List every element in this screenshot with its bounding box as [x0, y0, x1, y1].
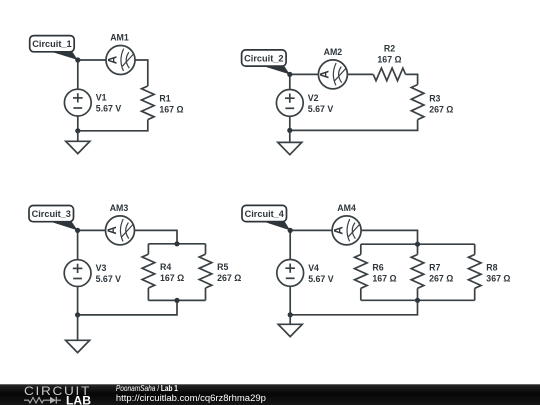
- wire ammeter AM2 to R2: [347, 73, 373, 75]
- ammeter AM1: [106, 46, 135, 75]
- ground circuit 1: [66, 131, 90, 154]
- node junction circuit 1 top: [75, 57, 80, 62]
- wire AM3 to parallel group: [135, 230, 178, 243]
- node junction parallel top circuit 3: [174, 241, 179, 246]
- svg-text:R8: R8: [486, 262, 497, 272]
- svg-text:V1: V1: [96, 93, 107, 103]
- svg-text:A: A: [320, 70, 332, 78]
- node junction circuit 4 bottom: [288, 312, 293, 317]
- node junction circuit 2 bottom: [287, 128, 292, 133]
- wire parallel bottom rail circuit 3: [148, 299, 205, 301]
- node junction parallel top circuit 4: [415, 242, 420, 247]
- ground circuit 4: [278, 315, 302, 337]
- voltage source V4: [277, 260, 304, 287]
- svg-text:LAB: LAB: [66, 395, 91, 405]
- svg-text:AM3: AM3: [110, 203, 129, 213]
- wire top rail circuit 2: [290, 73, 319, 75]
- wire R4 leads: [147, 244, 149, 254]
- wire V3 bottom: [77, 287, 79, 315]
- svg-text:167 Ω: 167 Ω: [377, 55, 401, 65]
- svg-text:AM2: AM2: [324, 47, 343, 57]
- svg-text:5.67 V: 5.67 V: [308, 274, 334, 284]
- wire R5 leads: [205, 244, 207, 254]
- footer bar: [0, 384, 540, 405]
- wire top rail circuit 1: [78, 59, 106, 61]
- wire bottom rail circuit 1: [78, 120, 148, 131]
- svg-text:267 Ω: 267 Ω: [429, 273, 453, 283]
- wire R2 to R3: [406, 74, 418, 84]
- svg-text:Circuit_4: Circuit_4: [245, 209, 285, 219]
- CircuitLab logo waveform icon: [24, 397, 50, 403]
- resistor R4: [142, 254, 155, 288]
- wire parallel top rail circuit 4: [361, 243, 475, 245]
- svg-text:Circuit_1: Circuit_1: [32, 39, 71, 49]
- ground circuit 2: [278, 130, 302, 154]
- voltage source V3: [64, 260, 91, 287]
- wire R7 leads: [417, 244, 419, 254]
- svg-text:R2: R2: [384, 44, 395, 54]
- voltage source V1: [64, 89, 91, 116]
- node junction parallel bottom circuit 3: [174, 298, 179, 303]
- wire V4 top: [289, 230, 291, 259]
- wire V3 top: [77, 230, 79, 259]
- node label Circuit_4: [242, 205, 290, 230]
- wire V1 bottom: [77, 116, 79, 131]
- resistor R2: [373, 68, 405, 81]
- svg-text:R6: R6: [372, 262, 383, 272]
- wire ammeter to resistor circuit 1: [135, 60, 148, 86]
- svg-text:V3: V3: [96, 263, 107, 273]
- voltage source V2: [276, 90, 303, 117]
- ammeter AM4: [332, 216, 361, 245]
- svg-text:PoonamSaha / Lab 1: PoonamSaha / Lab 1: [116, 384, 179, 393]
- node junction circuit 2 top: [287, 72, 292, 77]
- resistor R3: [411, 85, 424, 120]
- svg-text:167 Ω: 167 Ω: [159, 105, 183, 115]
- ammeter AM2: [318, 60, 347, 89]
- svg-text:R3: R3: [429, 94, 440, 104]
- wire AM4 to parallel group: [361, 230, 417, 244]
- svg-text:5.67 V: 5.67 V: [96, 104, 122, 114]
- wire top rail circuit 4: [290, 229, 332, 231]
- node junction circuit 3 bottom: [75, 312, 80, 317]
- node label Circuit_3: [29, 206, 78, 231]
- svg-text:5.67 V: 5.67 V: [308, 104, 334, 114]
- svg-text:AM1: AM1: [110, 33, 129, 43]
- node junction circuit 3 top: [75, 228, 80, 233]
- wire bottom rail circuit 2: [290, 120, 418, 131]
- node label Circuit_2: [242, 50, 290, 75]
- resistor R7: [411, 255, 424, 289]
- wire top rail circuit 3: [78, 229, 106, 231]
- resistor R5: [199, 254, 212, 288]
- ground circuit 3: [66, 315, 90, 353]
- resistor R8: [468, 255, 481, 289]
- svg-text:Circuit_2: Circuit_2: [244, 54, 283, 64]
- svg-text:A: A: [107, 56, 119, 64]
- svg-text:R4: R4: [160, 262, 171, 272]
- svg-text:Circuit_3: Circuit_3: [32, 209, 71, 219]
- svg-text:167 Ω: 167 Ω: [160, 273, 184, 283]
- node label Circuit_1: [30, 36, 78, 60]
- resistor R1: [142, 86, 155, 120]
- svg-text:V2: V2: [308, 93, 319, 103]
- node junction circuit 1 bottom: [75, 128, 80, 133]
- svg-text:367 Ω: 367 Ω: [486, 273, 510, 283]
- svg-text:R5: R5: [217, 262, 228, 272]
- svg-text:R7: R7: [429, 262, 440, 272]
- svg-text:AM4: AM4: [337, 203, 356, 213]
- svg-text:R1: R1: [159, 94, 170, 104]
- wire parallel bottom rail circuit 4: [361, 299, 475, 301]
- svg-text:267 Ω: 267 Ω: [217, 273, 241, 283]
- svg-text:V4: V4: [308, 263, 319, 273]
- wire V2 bottom: [289, 116, 291, 130]
- wire bottom return circuit 3: [78, 300, 177, 315]
- wire R8 leads: [474, 244, 476, 254]
- wire V2 top: [289, 74, 291, 89]
- svg-text:http://circuitlab.com/cq6rz8rh: http://circuitlab.com/cq6rz8rhma29p: [116, 393, 266, 403]
- svg-text:167 Ω: 167 Ω: [372, 273, 396, 283]
- wire parallel top rail circuit 3: [148, 243, 205, 245]
- svg-text:A: A: [107, 226, 119, 234]
- svg-text:5.67 V: 5.67 V: [96, 274, 122, 284]
- wire V4 bottom: [289, 286, 291, 315]
- svg-text:267 Ω: 267 Ω: [429, 105, 453, 115]
- wire bottom return circuit 4: [290, 300, 417, 315]
- resistor R6: [355, 255, 368, 289]
- node junction circuit 4 top: [288, 228, 293, 233]
- svg-text:A: A: [333, 226, 345, 234]
- node junction parallel bottom circuit 4: [415, 298, 420, 303]
- wire V1 top: [77, 60, 79, 89]
- wire R6 leads: [360, 244, 362, 254]
- ammeter AM3: [106, 216, 135, 245]
